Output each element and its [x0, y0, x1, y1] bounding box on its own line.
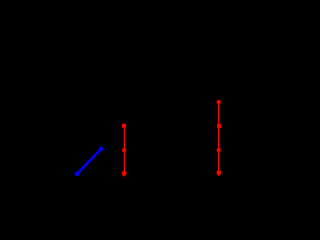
blue arrow tail dot	[75, 172, 80, 177]
left marker circle (middle)	[122, 148, 126, 152]
right marker pentagon (bottom)	[217, 171, 221, 177]
left marker square (top)	[122, 124, 126, 128]
right marker circle (top)	[217, 100, 221, 104]
right marker square (second)	[217, 124, 221, 128]
left marker pentagon (bottom)	[122, 171, 126, 177]
blue arrow shaft	[77, 149, 101, 174]
blue arrow head dot	[99, 147, 104, 152]
left red track line	[123, 126, 125, 174]
right red track line	[218, 102, 220, 173]
right marker circle (third)	[217, 148, 221, 152]
